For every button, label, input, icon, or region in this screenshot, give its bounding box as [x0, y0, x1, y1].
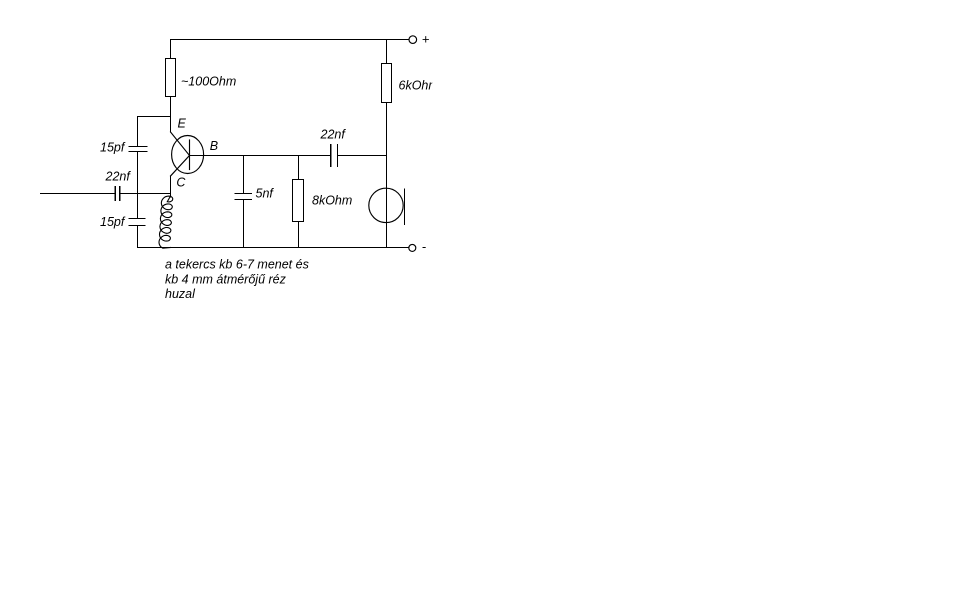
resistor R1 ~100Ohm body: [166, 59, 176, 97]
wire base rail from Q1 to C4: [190, 155, 331, 157]
transistor Q1 collector lead diagonal: [171, 156, 190, 177]
wire antenna input lead: [41, 193, 115, 195]
capacitor C1 15pf plates: [129, 147, 147, 152]
resistor R2 6kOhm body: [382, 64, 392, 103]
svg-text:E: E: [178, 117, 187, 131]
terminal - (circle): [409, 244, 416, 251]
inductor L1 coil loops: [159, 196, 173, 248]
capacitor C4 22nf coupling plates: [331, 145, 338, 167]
svg-text:5nf: 5nf: [256, 187, 275, 201]
wire left column top segment down to C1: [137, 117, 139, 147]
svg-text:15pf: 15pf: [100, 215, 126, 229]
capacitor C2 22nf input plates: [115, 187, 120, 201]
wire right rail from R2 down to bottom rail: [386, 103, 388, 248]
svg-text:8kOhm: 8kOhm: [312, 193, 352, 207]
wire R1 bottom to emitter junction and down to transistor: [170, 97, 172, 133]
wire from top rail down to R1: [170, 40, 172, 59]
svg-text:+: +: [422, 31, 430, 46]
capacitor C3 15pf plates: [129, 219, 145, 226]
earphone SP1 side bar: [404, 189, 406, 225]
wire left column between C1 and C3: [137, 152, 139, 219]
transistor Q1 emitter lead diagonal: [171, 132, 190, 156]
capacitor C5 5nf plates: [235, 194, 252, 200]
capacitor C5 5nf bottom lead: [243, 200, 245, 248]
svg-text:C: C: [176, 176, 186, 190]
resistor R3 8kOhm top lead: [298, 156, 300, 180]
wire right rail from top rail to R2: [386, 40, 388, 64]
transistor Q1 base bar: [189, 140, 191, 170]
svg-text:~100Ohm: ~100Ohm: [181, 75, 236, 89]
transistor Q1 body circle: [172, 136, 204, 174]
wire emitter junction to left capacitor column: [138, 116, 171, 118]
earphone SP1 circle: [369, 188, 403, 222]
svg-text:huzal: huzal: [165, 287, 196, 301]
svg-text:kb 4 mm átmérőjű réz: kb 4 mm átmérőjű réz: [165, 273, 287, 287]
svg-text:B: B: [210, 139, 218, 153]
wire left column from C3 to bottom rail: [137, 226, 139, 248]
resistor R3 8kOhm bottom lead: [298, 222, 300, 248]
svg-text:-: -: [422, 239, 427, 254]
svg-text:22nf: 22nf: [320, 128, 347, 142]
terminal + (circle): [409, 36, 417, 44]
wire from C2 to coil node (crosses left column junction): [120, 193, 170, 195]
svg-text:a tekercs kb 6-7 menet és: a tekercs kb 6-7 menet és: [165, 258, 309, 272]
wire bottom rail to - terminal: [138, 247, 409, 249]
wire top rail from R1 branch to + terminal: [171, 39, 409, 41]
wire collector down to coil: [170, 176, 172, 197]
svg-text:15pf: 15pf: [100, 141, 126, 155]
resistor R3 8kOhm body: [293, 180, 304, 222]
capacitor C5 5nf top lead: [243, 156, 245, 194]
svg-text:22nf: 22nf: [105, 170, 132, 184]
wire from C4 to right rail: [338, 155, 387, 157]
